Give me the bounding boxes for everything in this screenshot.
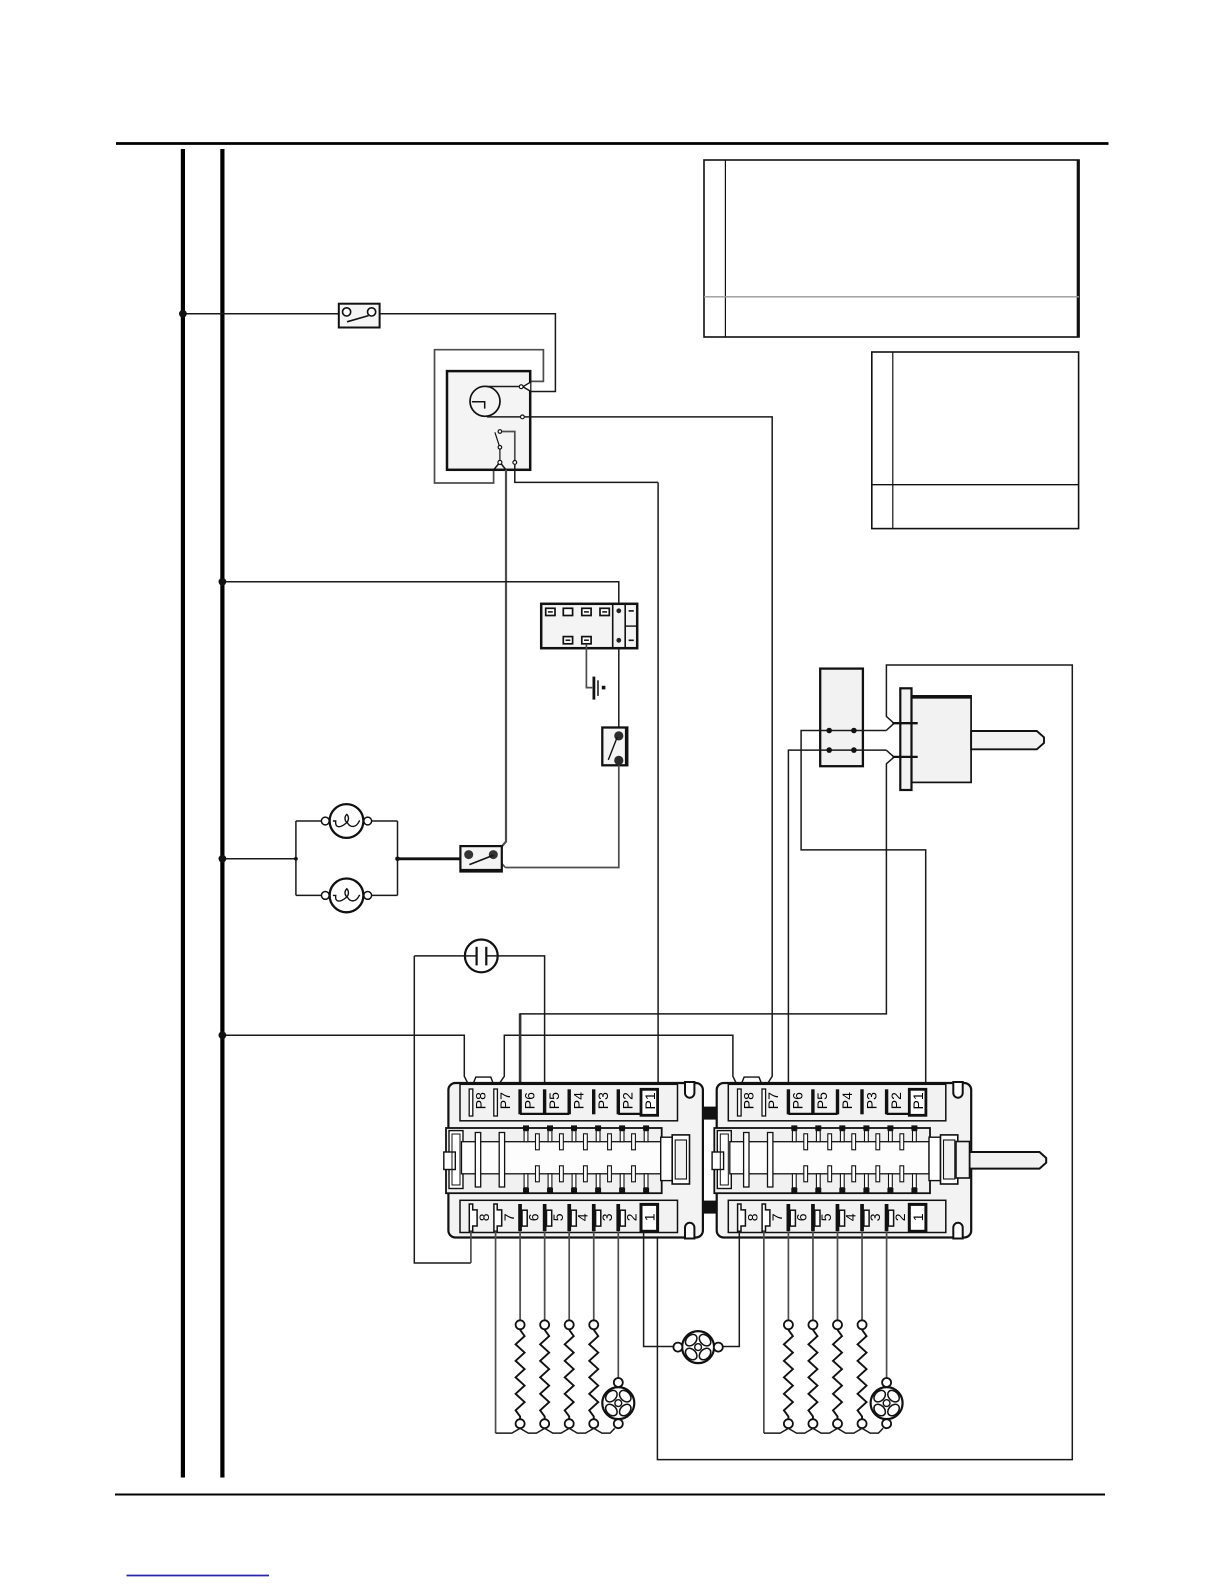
oven thermostat S2 [602, 728, 627, 766]
svg-text:P2: P2 [620, 1092, 636, 1109]
terminal 7 (bottom) of SW1 [494, 1204, 517, 1231]
svg-text:2: 2 [624, 1213, 640, 1221]
terminal P2 of SW1 [617, 1089, 636, 1114]
wire SW2-3 to R8 [861, 1231, 863, 1320]
svg-text:1: 1 [642, 1213, 658, 1221]
wire SW2-4 to R7 [837, 1231, 839, 1320]
svg-text:P7: P7 [497, 1092, 513, 1109]
oven lamp E1 [321, 804, 371, 838]
wire SW2-6 to R5 [787, 1231, 789, 1320]
wire SW1 P7 to SW2 P8 [495, 1035, 739, 1089]
wire door switch to timer [379, 314, 555, 392]
wire SW2-7 to heater rail [763, 1231, 765, 1433]
wire capacitor right leg [486, 956, 544, 1089]
wire fan M2 to SW2-8 [723, 1231, 740, 1346]
svg-text:7: 7 [501, 1213, 517, 1221]
timer switch contact a [498, 430, 502, 434]
wire SW1-2 to fan M1 [617, 1231, 619, 1378]
ground lead [586, 644, 592, 687]
wire bus L to door switch [183, 313, 339, 315]
oven lamp E2 [321, 879, 371, 913]
terminal P4 of SW2 [836, 1089, 855, 1114]
bottom border rule [115, 1494, 1105, 1496]
terminal P6 of SW1 [518, 1089, 537, 1114]
terminal 2 (bottom) of SW2 [885, 1204, 908, 1231]
terminal 4 (bottom) of SW1 [567, 1204, 590, 1231]
terminal P1 of SW1 [641, 1089, 658, 1115]
terminal 1 (bottom) of SW2 [909, 1204, 926, 1231]
junction on bus N (module) [219, 578, 227, 586]
svg-text:P5: P5 [814, 1092, 830, 1109]
circulation fan M1 [602, 1387, 634, 1419]
svg-text:2: 2 [892, 1213, 908, 1221]
legend box B2 [872, 352, 1079, 529]
fan M3 terminals [882, 1378, 891, 1428]
svg-text:P3: P3 [595, 1092, 611, 1109]
connector contacts [826, 728, 856, 753]
top heater R2 [540, 1320, 549, 1428]
timer motor pin arrow [487, 382, 531, 391]
svg-text:P3: P3 [863, 1092, 879, 1109]
selector switch SW1 body [448, 1082, 703, 1239]
svg-text:3: 3 [599, 1213, 615, 1221]
terminal P5 of SW2 [811, 1089, 830, 1114]
terminal 2 (bottom) of SW1 [616, 1204, 639, 1231]
terminal 8 (bottom) of SW2 [738, 1204, 761, 1231]
wire SW1-3 to R4 [593, 1231, 595, 1320]
terminal P7 of SW2 [762, 1089, 781, 1116]
terminal 7 (bottom) of SW2 [762, 1204, 785, 1231]
svg-text:6: 6 [525, 1213, 541, 1221]
wire timer aux to SW1 P1 [657, 482, 659, 1089]
wire bus N to module [222, 582, 618, 604]
svg-text:P1: P1 [642, 1092, 658, 1109]
terminal 3 (bottom) of SW1 [592, 1204, 615, 1231]
wire lamps to lamp switch [398, 857, 461, 860]
left heater rail [496, 1428, 615, 1433]
selector switch SW2 body [717, 1082, 972, 1239]
grill heater R5 [784, 1320, 793, 1428]
svg-text:4: 4 [843, 1213, 859, 1221]
timer clock face [470, 386, 500, 416]
terminal 8 (bottom) of SW1 [469, 1204, 492, 1231]
svg-text:5: 5 [550, 1213, 566, 1221]
timer switch lever [495, 432, 502, 460]
svg-text:P8: P8 [741, 1092, 757, 1109]
circulation fan M3 [871, 1387, 903, 1419]
wire timer Y to lamp switch [496, 470, 506, 854]
terminal P4 of SW1 [568, 1089, 587, 1114]
wire SW1 P6 riser [519, 1013, 522, 1088]
svg-text:4: 4 [574, 1213, 590, 1221]
wire SW1-4 to R3 [568, 1231, 570, 1320]
ring heater R4 [589, 1320, 598, 1428]
cam mechanism of SW1 [444, 1125, 690, 1193]
grill switch S4 [892, 688, 1044, 790]
terminal P6 of SW2 [787, 1089, 806, 1114]
wire SW1-8 to capacitor [470, 1231, 472, 1263]
svg-text:8: 8 [476, 1213, 492, 1221]
jumper P8-P7 of SW1 [471, 1077, 495, 1089]
wire timer pin2 to SW2 P7 [524, 417, 772, 1090]
svg-text:P5: P5 [546, 1092, 562, 1109]
terminal P3 of SW2 [860, 1089, 879, 1114]
top border rule [116, 142, 1109, 145]
link P2-P1 of SW2 [887, 1113, 911, 1115]
link P2-P1 of SW1 [618, 1113, 642, 1115]
terminal P5 of SW1 [543, 1089, 562, 1114]
terminal 5 (bottom) of SW1 [543, 1204, 566, 1231]
svg-text:1: 1 [910, 1213, 926, 1221]
svg-text:3: 3 [867, 1213, 883, 1221]
cooling fan M2 [682, 1331, 714, 1363]
terminal 6 (bottom) of SW1 [518, 1204, 541, 1231]
jumper P8-P7 of SW2 [739, 1077, 764, 1089]
timer T1 body [447, 371, 530, 470]
ignition module A1 [541, 604, 637, 648]
wire SW1 P6 to grill switch [520, 757, 894, 1014]
timer switch node Y [494, 460, 506, 469]
svg-text:6: 6 [794, 1213, 810, 1221]
wire module to thermostat [618, 648, 620, 727]
control shaft [956, 1142, 1046, 1179]
junction on bus L [179, 310, 187, 318]
footer link underline [127, 1575, 270, 1577]
ring heater R8 [858, 1320, 867, 1428]
terminal P3 of SW1 [592, 1089, 611, 1114]
svg-text:P4: P4 [571, 1092, 587, 1109]
wire SW1-7 to heater rail [495, 1231, 497, 1433]
svg-text:P2: P2 [888, 1092, 904, 1109]
svg-text:8: 8 [745, 1213, 761, 1221]
terminal P7 of SW1 [494, 1089, 513, 1116]
top heater R6 [808, 1320, 817, 1428]
terminal 1 (bottom) of SW1 [641, 1204, 658, 1231]
svg-text:P1: P1 [910, 1092, 926, 1109]
timer motor loop wire [435, 350, 544, 483]
link P6-P4 of SW2 [788, 1113, 837, 1115]
terminal P8 of SW2 [738, 1089, 757, 1116]
junction lamps out [395, 857, 400, 862]
wire SW2-2 to fan M3 [886, 1231, 888, 1378]
terminal 3 (bottom) of SW2 [860, 1204, 883, 1231]
coupler between SW1 SW2 top [702, 1107, 716, 1120]
grill heater R1 [516, 1320, 525, 1428]
door switch S1 [339, 304, 380, 328]
wire bus N to lamps [222, 858, 296, 860]
svg-text:P8: P8 [472, 1092, 488, 1109]
wire SW1-5 to R2 [544, 1231, 546, 1320]
connector X1 [820, 669, 863, 767]
bottom heater R7 [833, 1320, 842, 1428]
link P6-P4 of SW1 [520, 1113, 569, 1115]
svg-text:5: 5 [818, 1213, 834, 1221]
coupler between SW1 SW2 bottom [702, 1201, 716, 1214]
lamp switch S3 [460, 846, 501, 871]
wire SW1-6 to R1 [519, 1231, 521, 1320]
cam mechanism of SW2 [712, 1125, 958, 1193]
phase bus L [181, 149, 185, 1478]
right heater rail [764, 1428, 883, 1433]
terminal 4 (bottom) of SW2 [836, 1204, 859, 1231]
terminal P1 of SW2 [909, 1089, 926, 1115]
svg-text:P6: P6 [521, 1092, 537, 1109]
junction on bus N (lamps) [219, 855, 227, 863]
legend box B1 [704, 160, 1079, 337]
ground symbol [594, 677, 605, 700]
wire loop grill to SW1 terminal1 [657, 665, 1072, 1460]
capacitor C1 [465, 940, 498, 973]
junction on bus N (selector) [219, 1031, 227, 1039]
wire SW1-1 to fan M2 [644, 1232, 674, 1347]
timer pin 2 [487, 415, 524, 419]
wire connector bottom pair to SW2 P6 [788, 750, 894, 1088]
wire bus N to SW1 P8 [222, 1035, 471, 1089]
svg-text:P4: P4 [839, 1092, 855, 1109]
neutral bus N [220, 149, 224, 1478]
svg-text:7: 7 [769, 1213, 785, 1221]
fan M1 terminals [614, 1378, 623, 1428]
wire connector top pair to SW2 P1 [801, 723, 926, 1089]
lamp branch frame [294, 821, 398, 895]
wire thermostat to lamp switch [496, 765, 619, 867]
svg-text:P7: P7 [765, 1092, 781, 1109]
terminal P2 of SW2 [885, 1089, 904, 1114]
svg-text:P6: P6 [790, 1092, 806, 1109]
wire SW2-5 to R6 [812, 1231, 814, 1320]
timer aux contact wire [502, 432, 658, 483]
terminal P8 of SW1 [469, 1089, 488, 1116]
terminal 5 (bottom) of SW2 [811, 1204, 834, 1231]
fan M2 terminals [673, 1343, 722, 1352]
wire capacitor left leg [414, 956, 471, 1263]
terminal 6 (bottom) of SW2 [787, 1204, 810, 1231]
bottom heater R3 [565, 1320, 574, 1428]
